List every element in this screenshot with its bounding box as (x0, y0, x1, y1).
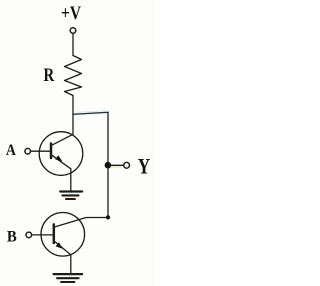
svg-text:R: R (44, 65, 55, 86)
svg-text:A: A (6, 141, 16, 159)
svg-text:Y: Y (138, 154, 150, 179)
svg-text:B: B (7, 228, 17, 245)
svg-text:+V: +V (61, 4, 82, 24)
